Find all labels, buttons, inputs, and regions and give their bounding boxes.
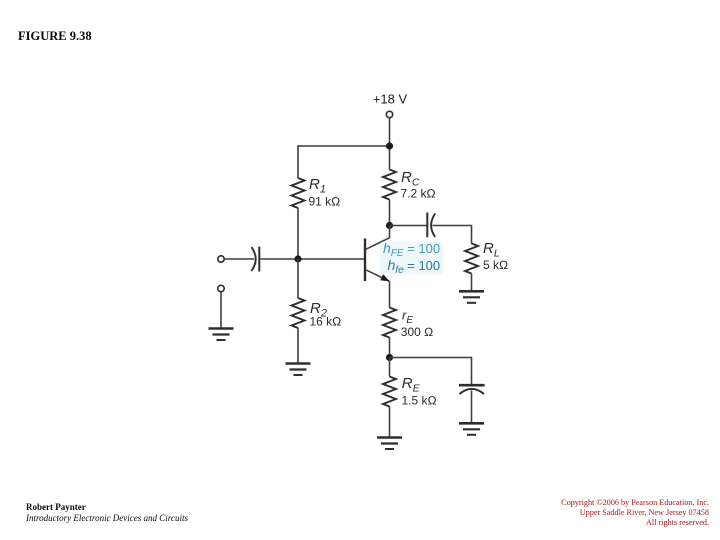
svg-text:16 kΩ: 16 kΩ bbox=[310, 315, 342, 329]
wire RE bottom bbox=[389, 407, 391, 438]
ground CE bbox=[459, 423, 484, 435]
junction collector node bbox=[386, 222, 393, 229]
resistor RC bbox=[383, 170, 396, 200]
wire emitter node to bypass cap bbox=[390, 358, 472, 385]
capacitor Cin bbox=[251, 247, 259, 272]
wire base rail bbox=[259, 258, 365, 260]
wire Cout to RL bbox=[433, 226, 472, 244]
resistor R2 bbox=[292, 298, 305, 328]
capacitor CE bypass bbox=[459, 385, 485, 394]
terminal VCC bbox=[386, 111, 392, 117]
junction emitter node bbox=[386, 354, 393, 361]
wire R2 top bbox=[297, 259, 299, 298]
terminal input lower bbox=[218, 285, 224, 291]
ground R2 bbox=[286, 364, 311, 376]
svg-text:RL: RL bbox=[483, 240, 500, 260]
emitter lead bbox=[366, 270, 390, 282]
ground input bbox=[209, 329, 234, 341]
collector lead bbox=[366, 226, 390, 250]
junction VCC bbox=[386, 142, 393, 149]
resistor RE bbox=[383, 377, 396, 407]
svg-text:300 Ω: 300 Ω bbox=[401, 325, 434, 339]
terminal input bbox=[218, 256, 224, 262]
wire RE top bbox=[389, 358, 391, 377]
emitter arrow bbox=[381, 275, 389, 281]
wire R1 top bbox=[297, 145, 299, 178]
svg-text:5 kΩ: 5 kΩ bbox=[483, 258, 508, 272]
wire VCC vertical bbox=[389, 118, 391, 170]
wire CE to ground bbox=[471, 391, 473, 423]
transistor Q1 bbox=[365, 226, 390, 282]
svg-text:+18 V: +18 V bbox=[373, 92, 408, 107]
wire rE bottom bbox=[389, 338, 391, 358]
svg-text:R1: R1 bbox=[309, 176, 326, 196]
wire RC bottom bbox=[389, 200, 391, 226]
transistor bar bbox=[364, 239, 366, 282]
junction base node bbox=[294, 255, 301, 262]
capacitor Cout bbox=[427, 213, 435, 238]
svg-text:RC: RC bbox=[401, 169, 420, 189]
copyright text bbox=[561, 498, 709, 528]
figure title bbox=[18, 29, 92, 44]
wire collector to Cout bbox=[390, 225, 428, 227]
svg-text:7.2 kΩ: 7.2 kΩ bbox=[401, 187, 436, 201]
resistor R1 bbox=[292, 178, 305, 208]
wire R2 bottom bbox=[297, 328, 299, 363]
wire lower terminal to ground bbox=[220, 292, 222, 328]
wire RL bottom bbox=[471, 274, 473, 291]
svg-text:91 kΩ: 91 kΩ bbox=[309, 194, 341, 208]
wire R1 bottom bbox=[297, 208, 299, 259]
svg-text:1.5 kΩ: 1.5 kΩ bbox=[402, 393, 437, 407]
halo behind hFE text bbox=[380, 242, 443, 275]
svg-text:rE: rE bbox=[402, 308, 413, 327]
credit text bbox=[26, 502, 188, 523]
ground RL bbox=[459, 291, 484, 303]
wire VCC to R1 bbox=[298, 145, 390, 147]
wire input to Cin bbox=[224, 258, 254, 260]
resistor RL bbox=[465, 244, 478, 274]
resistor rE bbox=[383, 308, 396, 338]
wire emitter down bbox=[389, 281, 391, 307]
svg-text:RE: RE bbox=[402, 375, 421, 395]
ground RE bbox=[377, 438, 402, 450]
